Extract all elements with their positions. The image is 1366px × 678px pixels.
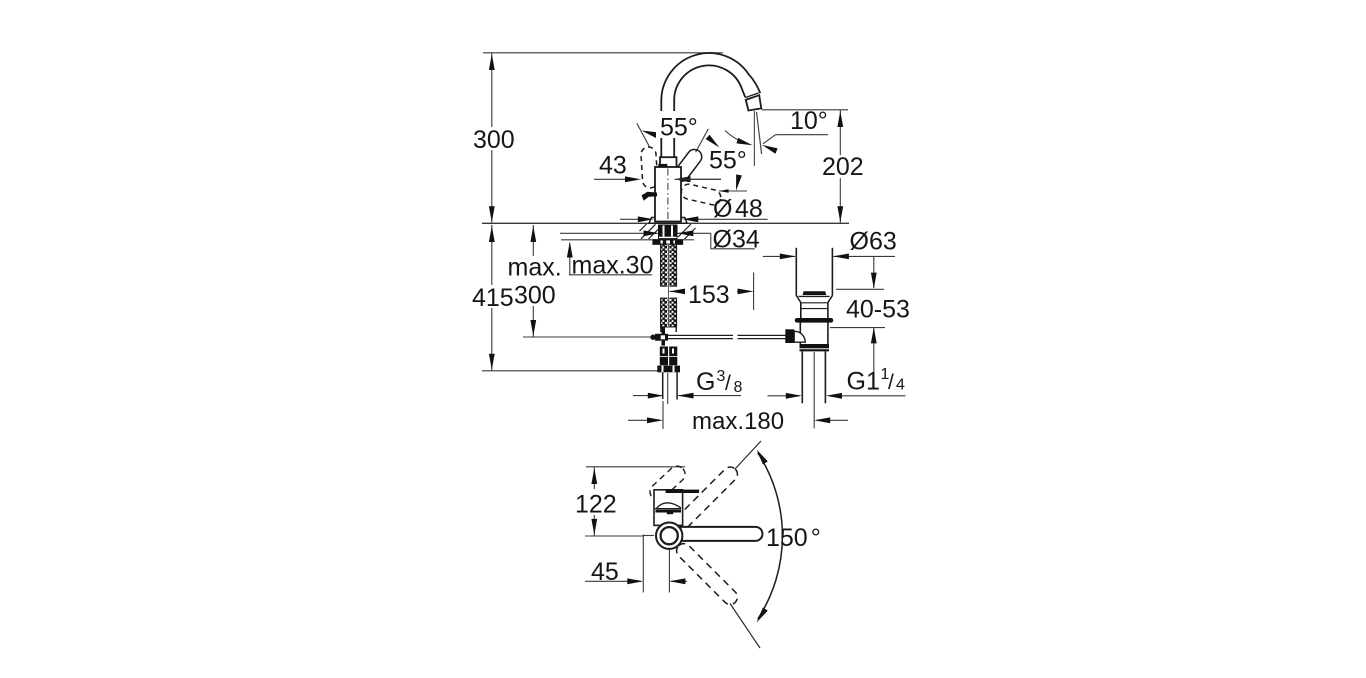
svg-text:55°: 55° [709,147,747,175]
svg-text:202: 202 [822,153,864,181]
svg-text:415: 415 [472,284,514,312]
svg-text:max.30: max.30 [572,252,654,280]
svg-text:300: 300 [514,282,556,310]
svg-text:4: 4 [896,377,905,394]
svg-text:43: 43 [599,152,627,180]
svg-text:55°: 55° [660,114,698,142]
svg-text:G1: G1 [847,368,880,396]
svg-text:40-53: 40-53 [846,296,910,324]
svg-text:300: 300 [473,126,515,154]
svg-text:10°: 10° [790,107,828,135]
svg-text:/: / [725,372,731,395]
svg-text:153: 153 [688,281,730,309]
svg-text:45: 45 [591,558,619,586]
svg-text:122: 122 [575,491,617,519]
svg-text:Ø63: Ø63 [850,228,897,256]
svg-text:Ø48: Ø48 [713,195,763,223]
svg-text:Ø34: Ø34 [713,226,760,254]
svg-text:G: G [696,368,715,396]
svg-text:150°: 150° [766,524,821,552]
svg-text:max.: max. [508,254,562,282]
svg-text:8: 8 [734,379,743,396]
svg-text:/: / [888,371,894,394]
svg-text:max.180: max.180 [692,408,784,435]
